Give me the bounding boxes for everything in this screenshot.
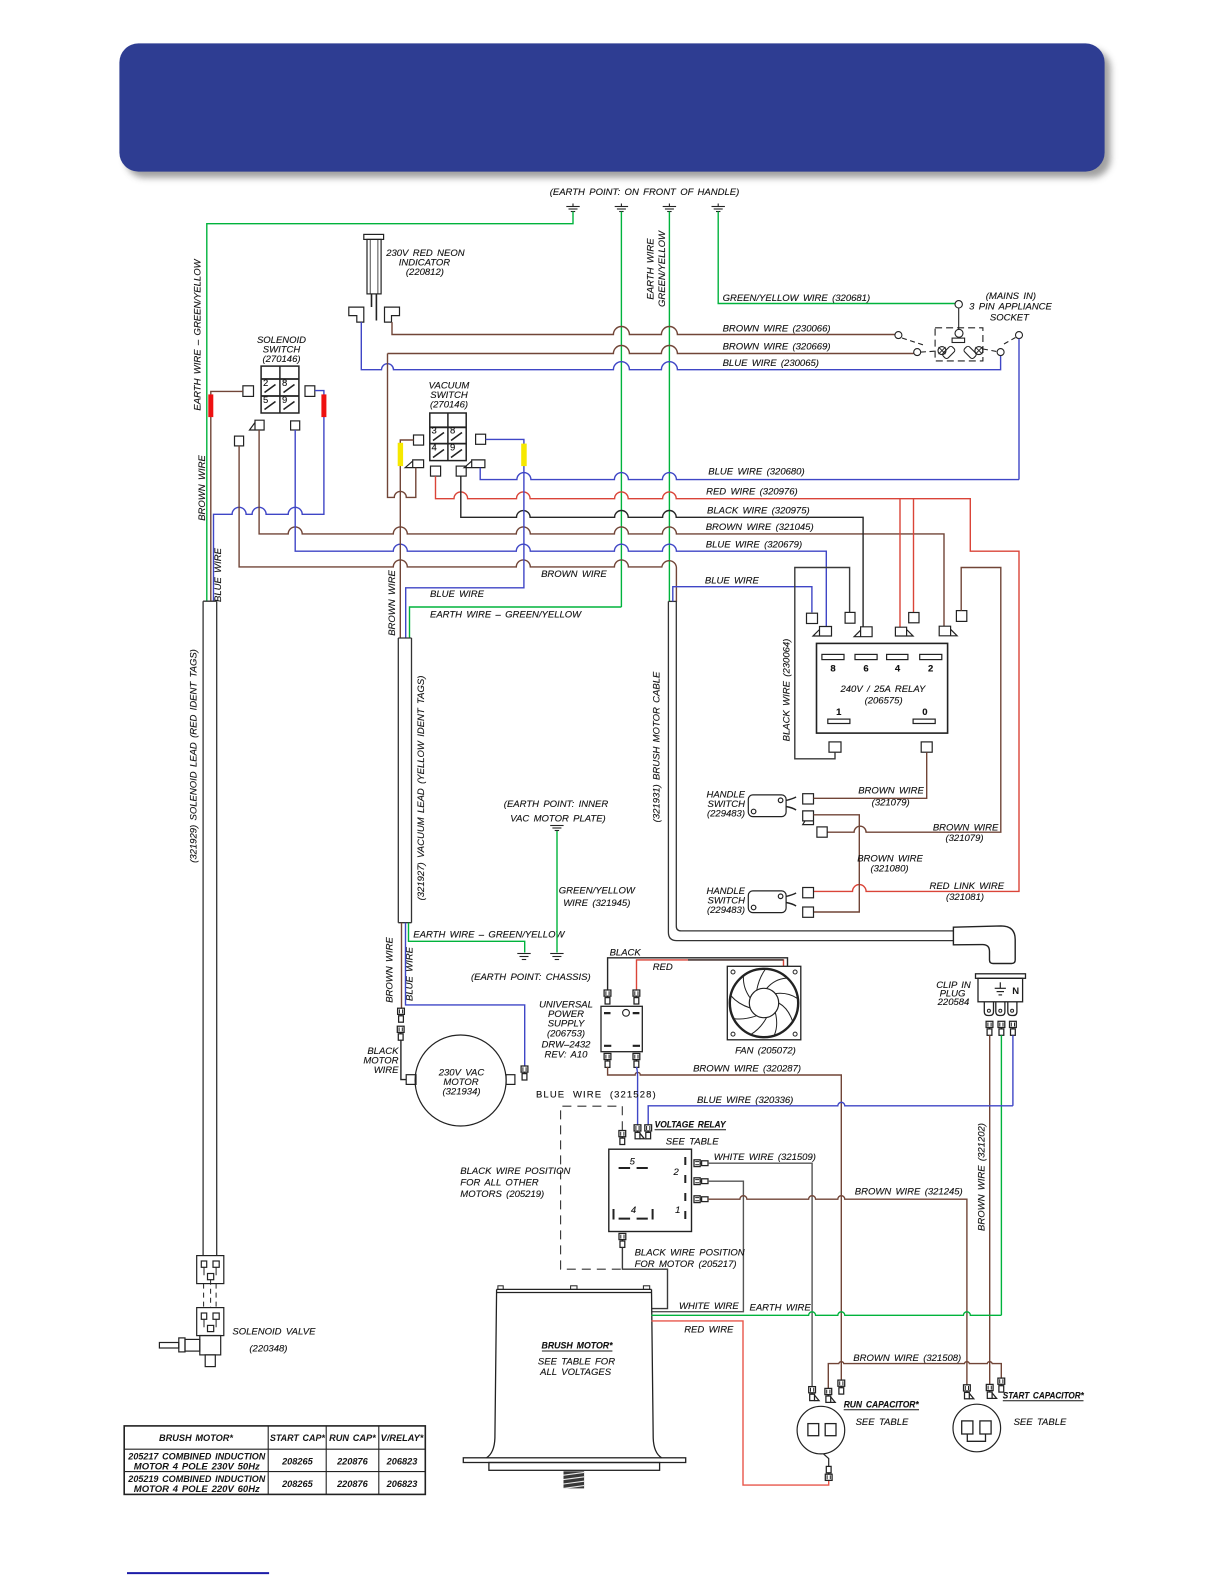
connector flag4 on relay [939, 626, 957, 636]
wire green below vacuum cable to chassis earth [409, 923, 525, 953]
connector flag1 on relay [813, 627, 832, 637]
ground chassis left [517, 954, 530, 960]
svg-text:BRUSH MOTOR*: BRUSH MOTOR* [542, 1341, 614, 1352]
svg-text:BLACK: BLACK [610, 948, 642, 959]
svg-text:WIRE (321945): WIRE (321945) [563, 898, 630, 909]
wire green/yellow 320681: ground G4 to socket pin [718, 212, 955, 304]
svg-text:BLUE WIRE (320680): BLUE WIRE (320680) [708, 467, 804, 478]
connector square left of vacuum switch [414, 435, 424, 445]
connector below relay pin1 [829, 742, 841, 752]
wire earth green/yellow left: ground G1 to left vertical [207, 212, 573, 602]
connector square near handle switch 1 [817, 827, 827, 837]
svg-text:V/RELAY*: V/RELAY* [381, 1433, 424, 1443]
svg-text:208265: 208265 [281, 1479, 314, 1489]
svg-text:BLUE WIRE (230065): BLUE WIRE (230065) [723, 358, 819, 369]
svg-text:BLUE WIRE: BLUE WIRE [705, 576, 760, 587]
svg-text:(321934): (321934) [442, 1087, 480, 1098]
relay 240V/25A (206575) box [817, 643, 948, 733]
svg-text:RED LINK WIRE: RED LINK WIRE [929, 881, 1004, 892]
svg-text:6: 6 [863, 664, 868, 675]
svg-text:SEE TABLE: SEE TABLE [1014, 1417, 1067, 1428]
svg-text:MOTORS (205219): MOTORS (205219) [460, 1189, 544, 1200]
svg-text:EARTH WIRE: EARTH WIRE [750, 1303, 812, 1314]
230V vac motor (321934) [415, 1035, 506, 1126]
connector square below-right of solenoid switch [291, 421, 300, 430]
svg-text:208265: 208265 [281, 1457, 314, 1467]
connector flag handle switch 1 bottom [803, 811, 814, 825]
start capacitor [953, 1404, 1001, 1452]
wire brown 321080 handle switch link [814, 815, 860, 912]
wire blue 320680 vertical at socket [1018, 339, 1020, 480]
wire brown 230066: neon to socket [392, 322, 895, 334]
connector block on solenoid valve [197, 1308, 224, 1336]
svg-text:BROWN WIRE: BROWN WIRE [541, 569, 607, 580]
svg-text:(270146): (270146) [262, 354, 300, 365]
svg-text:GREEN/YELLOW WIRE (320681): GREEN/YELLOW WIRE (320681) [723, 293, 871, 304]
svg-text:BLUE WIRE: BLUE WIRE [213, 547, 224, 602]
svg-text:BLUE WIRE: BLUE WIRE [430, 589, 485, 600]
svg-text:(EARTH POINT: ON FRONT OF: (EARTH POINT: ON FRONT OF HANDLE) [550, 187, 740, 198]
svg-text:(321081): (321081) [946, 892, 984, 903]
svg-text:(270146): (270146) [430, 400, 468, 411]
mains in 3 pin appliance socket [895, 301, 1023, 361]
svg-text:1: 1 [836, 707, 842, 718]
svg-text:WHITE WIRE: WHITE WIRE [679, 1301, 739, 1312]
svg-text:BROWN WIRE: BROWN WIRE [197, 455, 208, 521]
svg-text:4: 4 [631, 1205, 636, 1216]
svg-text:RUN CAP*: RUN CAP* [329, 1433, 376, 1443]
brush motor shaft bolt [564, 1471, 585, 1488]
svg-text:4: 4 [895, 664, 901, 675]
wire brown relay square4 to handle connector [827, 568, 1001, 833]
wire green/yellow 321945 [556, 831, 558, 953]
svg-text:240V / 25A RELAY: 240V / 25A RELAY [839, 684, 926, 695]
svg-text:BLUE WIRE (320336): BLUE WIRE (320336) [697, 1095, 793, 1106]
svg-text:SEE TABLE: SEE TABLE [666, 1137, 719, 1148]
wire brown 320287 power supply to run capacitor [608, 1067, 842, 1380]
footer blue rule [127, 1572, 269, 1574]
brush motor body [463, 1286, 685, 1471]
svg-text:220584: 220584 [937, 997, 970, 1008]
solenoid lead cable 321929 [203, 601, 217, 1255]
svg-text:(321929) SOLENOID LEAD (RED: (321929) SOLENOID LEAD (RED IDENT TAGS) [189, 649, 200, 863]
wire brown 320669: socket to vacuum switch horizontal [388, 346, 914, 354]
svg-text:BROWN WIRE (321045): BROWN WIRE (321045) [706, 522, 814, 533]
wire green vertical from ground G2 [620, 212, 622, 608]
connector flag2 on relay [854, 627, 872, 637]
svg-text:BLACK WIRE (230064): BLACK WIRE (230064) [782, 639, 793, 742]
svg-text:BROWN WIRE (320287): BROWN WIRE (320287) [693, 1064, 801, 1075]
wire green vertical from ground G3 to brush cable [668, 212, 670, 602]
svg-text:(206753): (206753) [547, 1029, 585, 1040]
svg-text:5: 5 [263, 395, 268, 406]
connector square black-feed below vacuum switch [456, 466, 466, 476]
wire brown 321508 [828, 1362, 1001, 1388]
svg-text:BLACK WIRE POSITION: BLACK WIRE POSITION [635, 1248, 745, 1259]
crimp pins right of voltage relay [694, 1160, 708, 1167]
connector elbow right of neon [385, 307, 400, 322]
svg-text:START CAPACITOR*: START CAPACITOR* [1003, 1391, 1085, 1402]
wire red 320976: vacuum switch to relay and red link [436, 476, 1020, 891]
banner shadow [126, 50, 1111, 178]
connector square red-feed below vacuum switch [431, 466, 441, 476]
wire black voltage relay to brush motor [622, 1247, 667, 1308]
svg-text:BLACK WIRE POSITION: BLACK WIRE POSITION [460, 1166, 570, 1177]
connector square handle switch 2 top [803, 888, 814, 898]
crimp on blue at vac motor [521, 1066, 528, 1080]
connector square right of solenoid switch [305, 386, 315, 397]
wire red branch to relay flag3 [899, 499, 901, 628]
crimps above power supply [604, 990, 611, 1004]
wire blue solenoid switch to solenoid lead [214, 391, 324, 602]
voltage relay pin marks [614, 1157, 686, 1224]
ground G1 top [566, 204, 579, 212]
wire red branch to relay square3 [913, 499, 915, 613]
svg-text:8: 8 [450, 426, 455, 437]
svg-text:SOLENOID VALVE: SOLENOID VALVE [232, 1327, 316, 1338]
svg-text:BLUE WIRE (321528): BLUE WIRE (321528) [536, 1090, 657, 1101]
dashed leads between valve blocks [204, 1280, 217, 1308]
neon indicator 230V red neon (220812) [364, 234, 384, 320]
connector square4 above relay [956, 611, 966, 622]
relay slots top [822, 654, 942, 723]
vacuum lead cable 321927 [398, 638, 411, 923]
red ident sleeve left [208, 394, 213, 417]
svg-text:205217 COMBINED INDUCTION: 205217 COMBINED INDUCTION [127, 1452, 265, 1462]
wire white 321509 voltage relay to run capacitor [708, 1163, 812, 1386]
svg-text:8: 8 [282, 378, 287, 389]
connector block upper of solenoid valve [197, 1256, 224, 1284]
crimps below voltage relay pin4 [619, 1233, 626, 1247]
svg-text:(321079): (321079) [872, 798, 910, 809]
svg-text:1: 1 [675, 1205, 680, 1216]
wire brown 321202 clip-in to start capacitor [989, 1035, 991, 1384]
svg-text:BROWN WIRE (230066): BROWN WIRE (230066) [723, 324, 831, 335]
svg-text:EARTH WIRE – GREEN/YELLOW: EARTH WIRE – GREEN/YELLOW [413, 930, 565, 941]
svg-text:3 PIN APPLIANCE: 3 PIN APPLIANCE [969, 301, 1052, 312]
svg-text:9: 9 [282, 395, 287, 406]
earth mark in clip-in plug [995, 982, 1006, 995]
svg-text:BLUE WIRE (320679): BLUE WIRE (320679) [706, 539, 802, 550]
svg-text:220876: 220876 [336, 1457, 369, 1467]
fan (205072) [727, 966, 801, 1040]
svg-text:(229483): (229483) [707, 809, 745, 820]
svg-text:GREEN/YELLOW: GREEN/YELLOW [559, 886, 636, 897]
svg-text:BROWN WIRE (321508): BROWN WIRE (321508) [853, 1353, 961, 1364]
svg-text:206823: 206823 [386, 1479, 418, 1489]
svg-text:BLACK WIRE (320975): BLACK WIRE (320975) [707, 505, 810, 516]
svg-text:BROWN WIRE (320669): BROWN WIRE (320669) [723, 342, 831, 353]
svg-text:(321931) BRUSH MOTOR CABLE: (321931) BRUSH MOTOR CABLE [652, 671, 663, 822]
run capacitor [797, 1406, 845, 1454]
svg-text:5: 5 [630, 1157, 636, 1168]
svg-text:SOCKET: SOCKET [990, 312, 1030, 323]
svg-text:2: 2 [263, 378, 268, 389]
wire brown 321245 voltage relay to start capacitor [708, 1196, 967, 1385]
voltage relay pin numbers [630, 1157, 681, 1217]
wire red power supply to fan [637, 960, 784, 990]
connector flag3 on relay [895, 627, 913, 636]
connector square left of solenoid switch [243, 386, 254, 397]
svg-text:220876: 220876 [336, 1479, 369, 1489]
crimp pair on black motor wire [398, 1008, 405, 1022]
svg-text:BROWN WIRE (321245): BROWN WIRE (321245) [855, 1187, 963, 1198]
crimps above voltage relay [619, 1131, 626, 1145]
wire blue vacuum switch to vacuum lead cable [406, 439, 524, 638]
connector square handle switch 1 top [803, 794, 814, 804]
svg-text:GREEN/YELLOW: GREEN/YELLOW [657, 230, 668, 307]
motor options table [124, 1426, 425, 1495]
relay pin numbers [830, 664, 933, 719]
svg-text:0: 0 [922, 707, 927, 718]
svg-text:VOLTAGE RELAY: VOLTAGE RELAY [655, 1120, 727, 1131]
yellow ident sleeve left [398, 443, 403, 466]
svg-text:(321080): (321080) [870, 864, 908, 875]
cable boot elbow [953, 926, 1015, 964]
svg-text:FOR ALL OTHER: FOR ALL OTHER [460, 1178, 539, 1189]
wire green earth to vacuum lead cable [410, 607, 622, 638]
connector flag below-left of vacuum switch [405, 460, 423, 468]
wire blue below vacuum cable to vac motor [406, 923, 525, 1066]
vac motor left tab [406, 1075, 416, 1085]
svg-text:206823: 206823 [386, 1457, 418, 1467]
svg-text:VAC MOTOR PLATE): VAC MOTOR PLATE) [510, 814, 605, 825]
wire black power supply to fan [608, 958, 788, 990]
wire brown 320669 lower leg to vacuum flag [388, 354, 416, 498]
ground chassis right [550, 954, 563, 960]
wire blue 320680: vacuum flag to socket [480, 468, 1019, 480]
wire red motor to run capacitor bottom [652, 1321, 829, 1485]
crimps above run capacitor [809, 1387, 819, 1401]
svg-text:RED WIRE: RED WIRE [684, 1325, 734, 1336]
svg-text:FOR MOTOR (205217): FOR MOTOR (205217) [635, 1259, 737, 1270]
wire black 320975: vacuum switch to relay flag2 [461, 476, 863, 627]
ground G3 top [663, 204, 676, 212]
svg-text:BROWN WIRE: BROWN WIRE [387, 570, 398, 636]
svg-text:(206575): (206575) [865, 696, 903, 707]
clip in plug 220584 [976, 974, 1026, 1016]
svg-text:SEE TABLE FOR: SEE TABLE FOR [538, 1357, 615, 1368]
svg-text:BRUSH MOTOR*: BRUSH MOTOR* [159, 1433, 233, 1443]
svg-text:(321079): (321079) [945, 833, 983, 844]
handle switch 2 (229483) [748, 891, 796, 913]
connector flag below-right of vacuum switch [464, 460, 485, 468]
solenoid switch body [261, 366, 299, 413]
svg-text:ALL VOLTAGES: ALL VOLTAGES [539, 1367, 612, 1378]
vacuum switch body [430, 413, 466, 461]
svg-text:4: 4 [432, 443, 437, 454]
ground G2 top [615, 204, 628, 212]
wire green clip-in to earth wire run [1000, 1035, 1002, 1315]
wire brown 321079 handle switch 1 to relay pin0 [814, 752, 927, 798]
connector square1 above relay [807, 613, 818, 623]
handle switch 1 (229483) [748, 795, 796, 817]
connector square third below solenoid switch [235, 436, 244, 446]
svg-text:RED: RED [653, 962, 673, 973]
svg-text:BROWN WIRE: BROWN WIRE [385, 937, 396, 1003]
connector square right of vacuum switch [476, 434, 486, 444]
svg-text:EARTH WIRE – GREEN/YELLOW: EARTH WIRE – GREEN/YELLOW [430, 610, 582, 621]
wire green earth motor to clip-in green [652, 1312, 1002, 1316]
svg-text:(321927) VACUUM LEAD (YELLO: (321927) VACUUM LEAD (YELLOW IDENT TAGS) [416, 676, 427, 901]
wire blue 320336 clip-in to voltage relay [648, 1102, 1013, 1125]
svg-text:SEE TABLE: SEE TABLE [856, 1417, 909, 1428]
svg-text:205219 COMBINED INDUCTION: 205219 COMBINED INDUCTION [127, 1474, 265, 1484]
svg-text:2: 2 [928, 664, 933, 675]
crimps below power supply [604, 1053, 611, 1067]
svg-text:(220348): (220348) [249, 1344, 287, 1355]
connector elbow left of neon [349, 307, 364, 322]
yellow ident sleeve right [521, 444, 527, 467]
banner [119, 43, 1104, 171]
wire brown 321045: solenoid flag to relay flag4 [259, 430, 944, 626]
wire blue 230065: neon to socket [361, 322, 1000, 370]
svg-text:N: N [1012, 986, 1019, 997]
crimps above start capacitor [964, 1385, 974, 1399]
wire black 230064 relay loop [795, 568, 850, 759]
connector flag below-left of solenoid switch [250, 420, 265, 430]
svg-text:(EARTH POINT: INNER: (EARTH POINT: INNER [504, 799, 609, 810]
brush motor cable 321931 [668, 601, 953, 940]
connector square handle switch 2 bottom [803, 907, 814, 917]
wire brown solenoid switch to solenoid lead [211, 391, 243, 601]
wire brown solenoid third square to brush motor cable [239, 446, 676, 602]
voltage relay box [609, 1149, 692, 1231]
svg-text:START CAP*: START CAP* [270, 1433, 325, 1443]
connector square3 above relay [909, 613, 919, 623]
wire brown below vacuum cable [401, 923, 403, 1009]
wire blue clip-in down to 320336 [1012, 1035, 1014, 1106]
run capacitor bottom pin [824, 1454, 829, 1467]
connector square2 above relay [845, 612, 855, 623]
universal power supply (206753) [601, 1006, 642, 1051]
svg-text:WHITE WIRE (321509): WHITE WIRE (321509) [714, 1152, 816, 1163]
svg-text:MOTOR 4 POLE 220V 60Hz: MOTOR 4 POLE 220V 60Hz [134, 1484, 260, 1494]
wire blue brush cable to relay square1 [673, 587, 812, 613]
svg-text:RUN CAPACITOR*: RUN CAPACITOR* [844, 1400, 920, 1411]
svg-text:RED WIRE (320976): RED WIRE (320976) [706, 487, 798, 498]
svg-text:2: 2 [672, 1167, 679, 1178]
svg-text:(229483): (229483) [707, 905, 745, 916]
crimps under clip-in plug [986, 1021, 993, 1035]
svg-text:EARTH WIRE – GREEN/YELLOW: EARTH WIRE – GREEN/YELLOW [193, 258, 204, 410]
svg-text:BROWN WIRE: BROWN WIRE [858, 786, 924, 797]
connector below relay pin0 [921, 742, 932, 752]
svg-text:MOTOR 4 POLE 230V 50Hz: MOTOR 4 POLE 230V 50Hz [134, 1462, 260, 1472]
wire blue 321528 power supply to voltage relay [637, 1067, 638, 1125]
svg-text:8: 8 [830, 664, 835, 675]
wire black motor wire to vac motor [401, 1040, 406, 1079]
solenoid valve body [159, 1336, 220, 1367]
ground G4 top [712, 204, 725, 212]
svg-text:FAN (205072): FAN (205072) [735, 1046, 796, 1057]
svg-text:EARTH WIRE: EARTH WIRE [646, 238, 657, 300]
red ident sleeve right [321, 394, 326, 417]
wire blue 320679: solenoid square to relay flag1 [295, 430, 826, 627]
svg-text:(EARTH POINT: CHASSIS): (EARTH POINT: CHASSIS) [471, 972, 591, 983]
svg-text:REV: A10: REV: A10 [545, 1049, 589, 1060]
svg-text:3: 3 [432, 426, 437, 437]
ground inner vac motor plate [550, 826, 563, 831]
svg-text:9: 9 [450, 443, 455, 454]
vac motor right tab [506, 1075, 515, 1085]
svg-text:(220812): (220812) [406, 267, 444, 278]
dashed annotation box 205219 [561, 1106, 623, 1269]
wire white voltage relay pin2 to brush motor [652, 1181, 743, 1312]
svg-text:WIRE: WIRE [374, 1065, 399, 1076]
svg-text:BROWN WIRE (321202): BROWN WIRE (321202) [977, 1123, 988, 1231]
wire brown vacuum switch to vacuum lead cable [400, 440, 413, 638]
